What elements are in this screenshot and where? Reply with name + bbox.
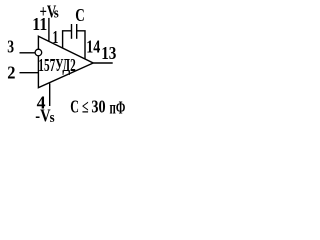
svg-text:пФ: пФ bbox=[110, 97, 126, 117]
svg-text:3: 3 bbox=[7, 37, 14, 57]
svg-text:11: 11 bbox=[32, 14, 47, 34]
svg-text:30: 30 bbox=[91, 97, 105, 117]
svg-text:s: s bbox=[50, 110, 55, 126]
svg-text:-V: -V bbox=[35, 106, 50, 126]
svg-text:C: C bbox=[75, 5, 85, 25]
svg-text:s: s bbox=[54, 5, 59, 21]
svg-text:13: 13 bbox=[101, 43, 116, 63]
svg-text:C ≤: C ≤ bbox=[70, 97, 88, 117]
svg-text:1: 1 bbox=[52, 27, 58, 47]
svg-text:14: 14 bbox=[86, 36, 100, 56]
svg-text:157УД2: 157УД2 bbox=[38, 55, 76, 75]
svg-text:2: 2 bbox=[7, 63, 15, 83]
